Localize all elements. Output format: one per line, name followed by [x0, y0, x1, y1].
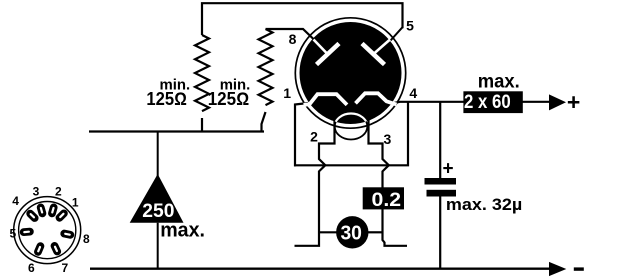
socket pin 2 [47, 203, 58, 219]
resistor 30 circle [336, 216, 368, 248]
anode a1 plate bar [317, 44, 340, 65]
svg-text:4: 4 [12, 194, 19, 208]
label minus [574, 267, 584, 270]
svg-text:7: 7 [62, 261, 69, 275]
anode a1 lead [314, 40, 328, 55]
anode a2 lead [374, 40, 391, 55]
svg-text:1: 1 [283, 85, 291, 101]
wire HT lead lower [157, 223, 159, 269]
wire to resistor 30 right [368, 231, 384, 233]
svg-text:3: 3 [384, 131, 392, 147]
capacitor C 0.2 box [363, 187, 404, 209]
output minus arrow [549, 262, 566, 276]
transformer voltage triangle 250 max [130, 174, 184, 223]
wire R2 bottom lead [262, 112, 266, 132]
tube V1 bulb black disc [300, 22, 402, 124]
socket pin 1 [54, 208, 69, 223]
svg-text:8: 8 [83, 232, 90, 246]
svg-text:4: 4 [409, 85, 417, 101]
resistor R1 zigzag [195, 35, 209, 111]
wire to resistor 30 left [319, 231, 337, 233]
wire top bus (R1 top to pin 5) [202, 3, 403, 35]
svg-text:5: 5 [9, 227, 16, 241]
svg-text:1: 1 [72, 196, 79, 210]
wire mid-left bus [89, 130, 264, 132]
wire R1 bottom lead [201, 118, 203, 132]
capacitor C2 bottom plate [427, 190, 457, 197]
socket pin 4 [25, 208, 40, 223]
svg-text:6: 6 [28, 261, 35, 275]
capacitor C2 top plate [425, 178, 457, 185]
socket pin 5 [19, 227, 34, 236]
wire minus bus [90, 268, 550, 270]
svg-text:max.: max. [160, 220, 205, 242]
svg-text:3: 3 [33, 185, 40, 199]
wire R2 top to pin 8 [266, 29, 315, 40]
exhaust circle black part [335, 114, 368, 140]
wire pin 2 lead with hop and heater stub [295, 119, 335, 246]
socket pin 3 [36, 203, 47, 219]
svg-text:0.2: 0.2 [372, 190, 402, 211]
wire pin 5 lead diagonal [391, 27, 403, 40]
wire HT lead upper [157, 132, 159, 177]
anode a2 plate bar [362, 44, 385, 65]
socket pin 7 [49, 241, 62, 257]
filament cathode left hump [304, 94, 348, 105]
socket base outer circle [14, 197, 81, 264]
wire cathode bus with right riser to pin4 wire [294, 102, 408, 166]
socket base inner circle [19, 202, 76, 259]
filament cathode right hump [356, 93, 397, 104]
svg-text:125Ω: 125Ω [146, 89, 187, 109]
wire pin 1 lead [295, 103, 308, 166]
socket pin 8 [60, 229, 75, 239]
resistor R2 zigzag [259, 29, 273, 105]
svg-text:125Ω: 125Ω [208, 89, 250, 109]
wire pin 3 lead with hop and heater stub [369, 119, 408, 246]
exhaust circle white part [335, 114, 368, 140]
output plus arrow [549, 94, 566, 110]
wire capacitor bottom lead [439, 197, 441, 269]
svg-text:2: 2 [55, 185, 62, 199]
wire capacitor top lead [439, 102, 441, 178]
wire pin 4 output [391, 102, 549, 104]
svg-text:2 x 60: 2 x 60 [464, 92, 511, 113]
tube V1 envelope outer circle [295, 18, 405, 128]
svg-text:5: 5 [406, 17, 414, 33]
svg-text:max. 32µ: max. 32µ [446, 196, 522, 214]
svg-text:+: + [442, 159, 453, 180]
current box 2 x 60 [463, 91, 522, 113]
svg-text:max.: max. [478, 71, 520, 92]
svg-text:2: 2 [310, 129, 318, 145]
svg-text:30: 30 [340, 222, 362, 245]
svg-text:8: 8 [289, 31, 297, 47]
socket pin 6 [33, 241, 46, 257]
svg-text:+: + [567, 89, 580, 115]
